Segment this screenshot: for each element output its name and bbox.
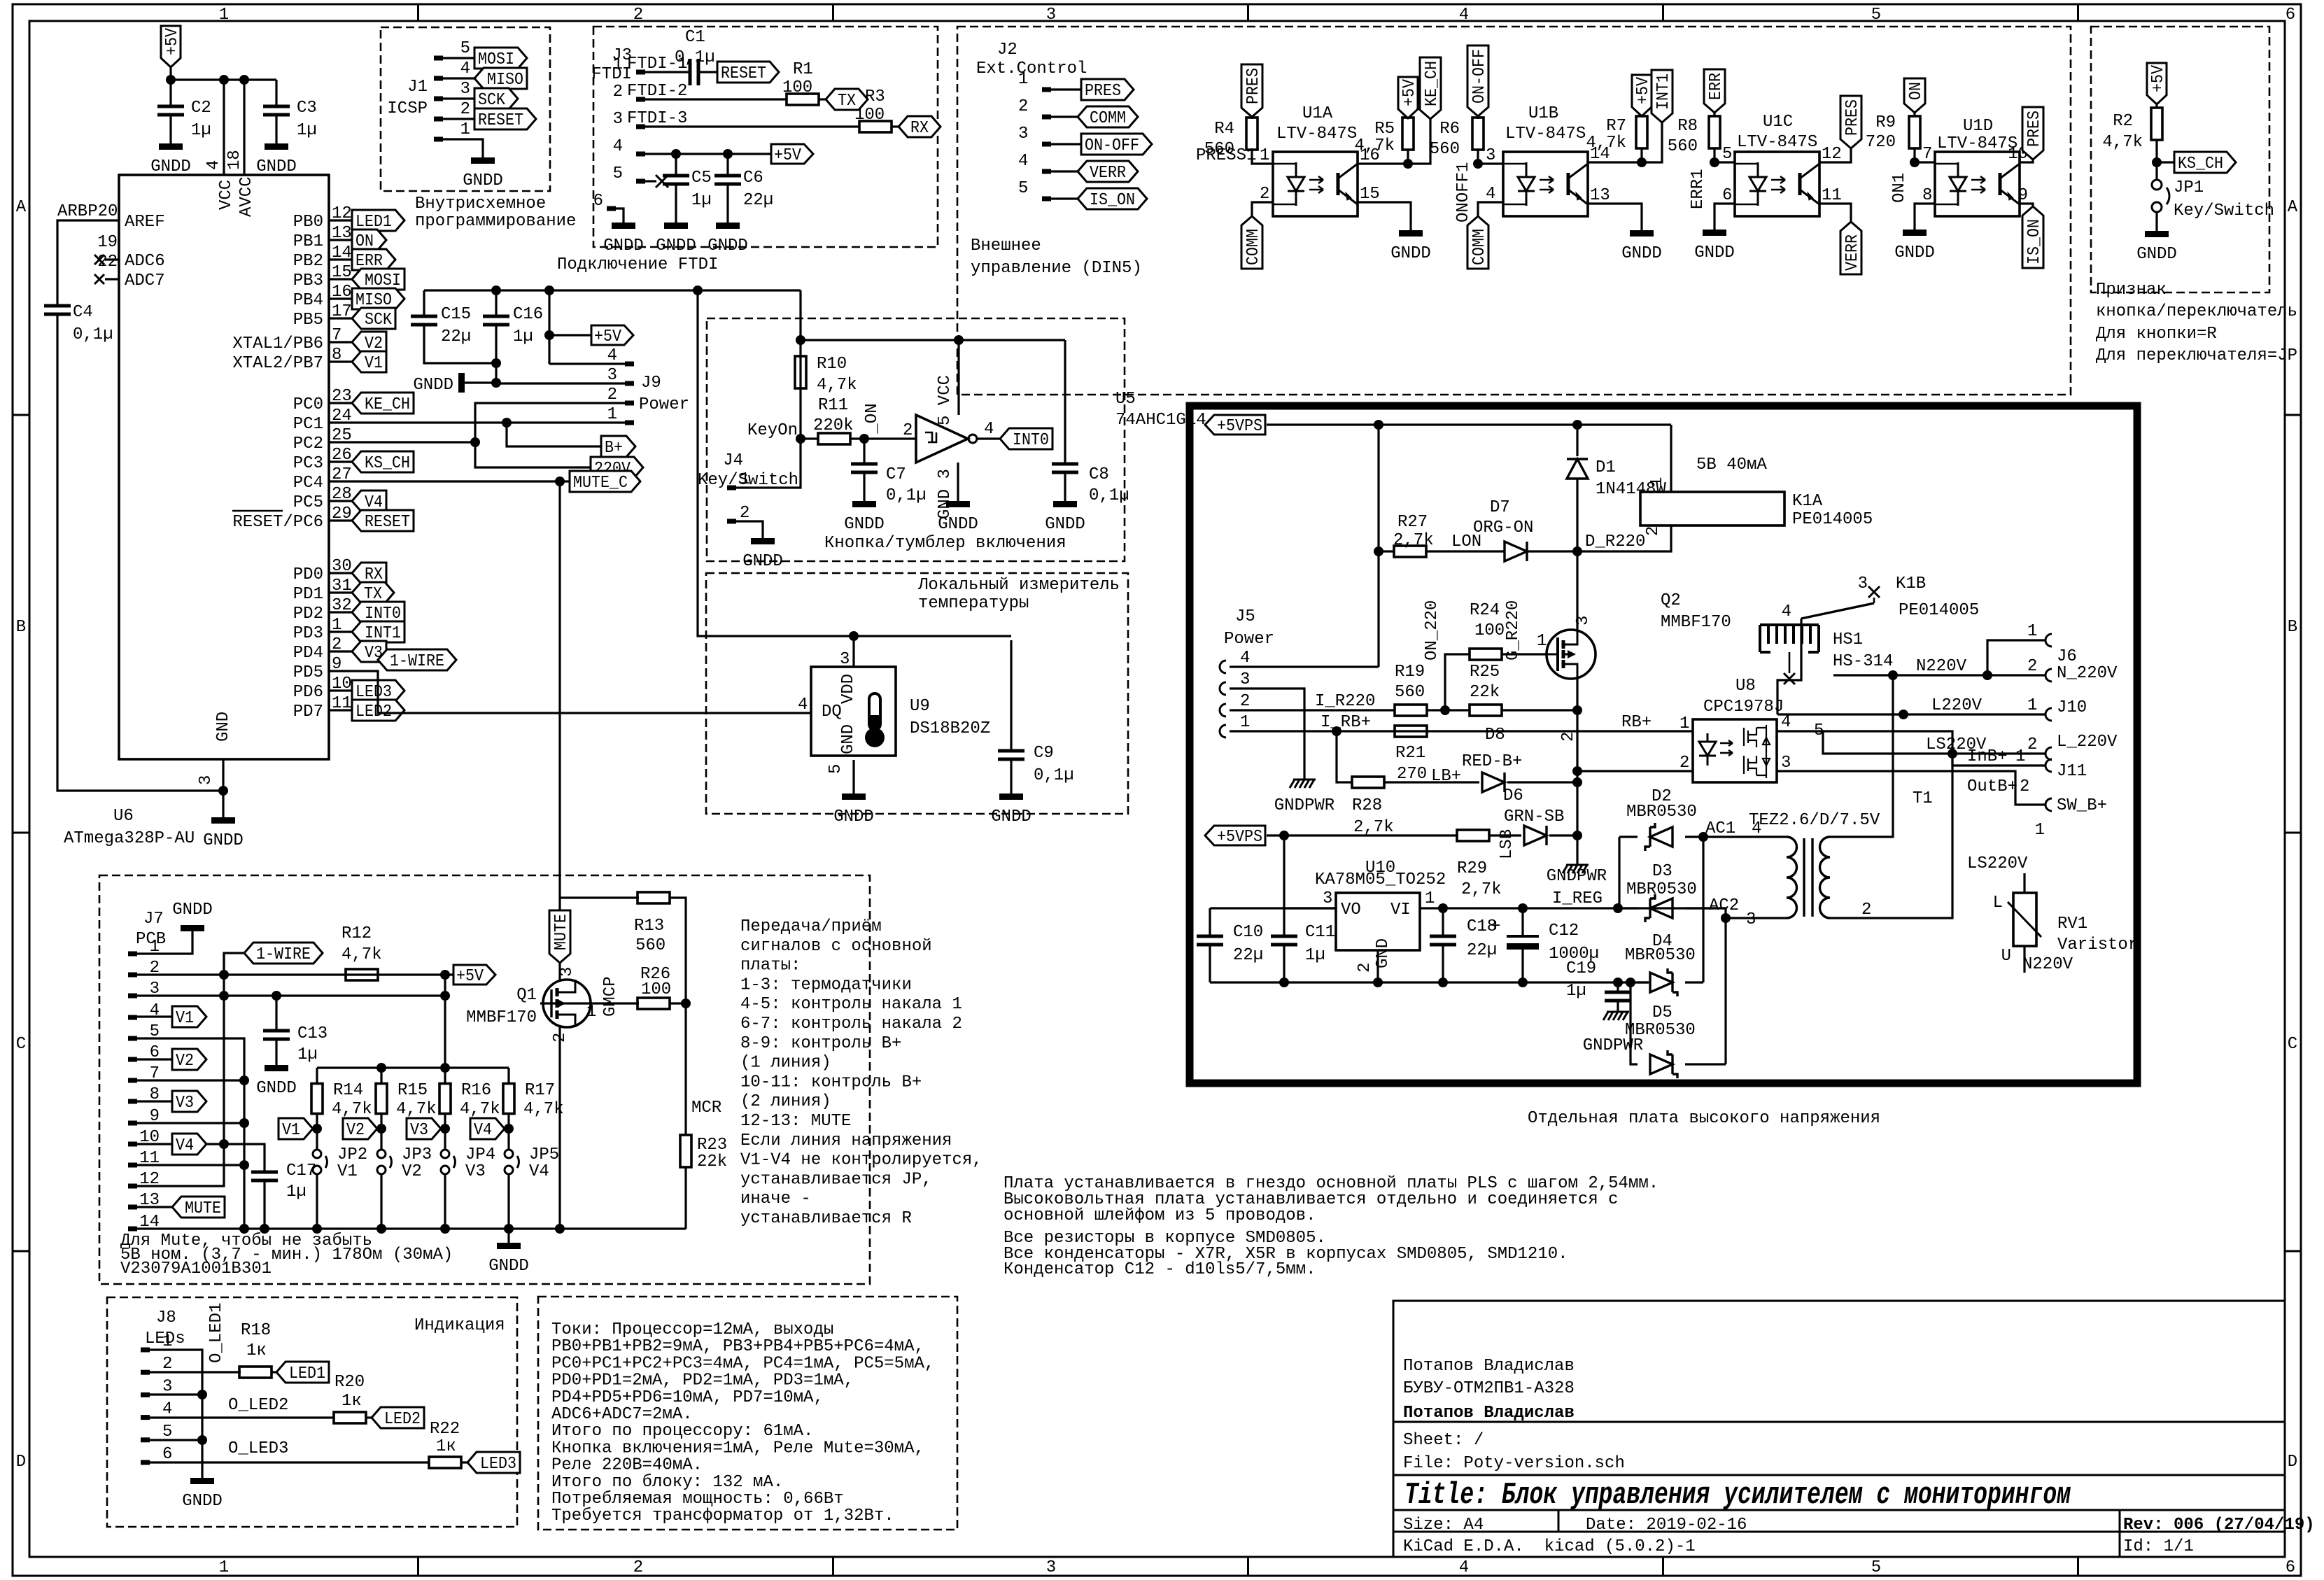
svg-text:C6: C6 (743, 169, 763, 188)
svg-text:DQ: DQ (822, 703, 842, 721)
svg-text:3: 3 (1046, 6, 1056, 24)
svg-text:ORG-ON: ORG-ON (1473, 519, 1533, 537)
ground GNDD under C3 (265, 143, 288, 150)
junction KeyOn (796, 434, 805, 444)
junction dots on VCC rail (166, 75, 176, 85)
ground GNDD under J8 (190, 1478, 214, 1484)
svg-text:C4: C4 (73, 303, 93, 322)
svg-text:100: 100 (641, 980, 671, 999)
svg-text:4,7k: 4,7k (341, 945, 382, 964)
svg-text:KE_CH: KE_CH (1423, 61, 1442, 106)
svg-text:C9: C9 (1034, 744, 1054, 763)
svg-text:U8: U8 (1735, 677, 1756, 696)
wire R11 to C7 junction, net T_ON (850, 437, 916, 439)
svg-text:GNDD: GNDD (1390, 244, 1431, 263)
svg-text:100: 100 (854, 106, 885, 125)
wire U8 pin2 (1577, 770, 1693, 772)
svg-text:GRN-SB: GRN-SB (1504, 807, 1564, 826)
resistor R6 (1477, 116, 1479, 119)
wire J9 pin4 (549, 362, 625, 365)
global label RX (FTDI) (899, 116, 941, 137)
svg-text:PD0: PD0 (293, 565, 323, 584)
svg-text:PRES: PRES (1085, 82, 1121, 101)
svg-text:GNDPWR: GNDPWR (1274, 796, 1334, 815)
svg-text:R24: R24 (1470, 601, 1500, 620)
wire J5 pin1 I_RB+ to U8 (1230, 730, 1693, 732)
svg-text:I_RB+: I_RB+ (1321, 713, 1371, 732)
svg-text:Токи: Процессор=12мА, выходы: Токи: Процессор=12мА, выходы (551, 1320, 833, 1339)
global label TX (FTDI) (826, 89, 868, 110)
svg-text:1: 1 (1679, 714, 1689, 733)
svg-text:U1C: U1C (1763, 113, 1793, 132)
svg-text:Признак: Признак (2096, 281, 2167, 299)
wire J7 pin14 ground rail (137, 1227, 686, 1229)
svg-text:R1: R1 (793, 60, 813, 79)
svg-text:PC5: PC5 (293, 493, 323, 512)
svg-text:V1: V1 (282, 1121, 300, 1140)
svg-text:кнопка/переключатель: кнопка/переключатель (2096, 302, 2297, 321)
svg-text:U: U (2001, 947, 2011, 966)
svg-text:Ext.Control: Ext.Control (976, 59, 1087, 78)
svg-text:V3: V3 (410, 1121, 428, 1140)
svg-text:GNDD: GNDD (182, 1492, 223, 1511)
wire J7 pin3 (137, 994, 445, 996)
svg-text:560: 560 (1395, 683, 1425, 702)
wire J7 pin10 V4 to C17 junction (137, 1143, 224, 1145)
svg-text:R10: R10 (817, 355, 847, 374)
svg-text:ICSP: ICSP (387, 99, 428, 118)
relay switch K1B (1868, 586, 1880, 598)
svg-text:Итого по процессору: 61мА.: Итого по процессору: 61мА. (551, 1422, 813, 1441)
svg-text:PE014005: PE014005 (1792, 510, 1873, 529)
resistor R21 (1395, 726, 1427, 737)
wire U8 pin4 to J11 pin1 InB+ (1777, 731, 2045, 766)
svg-text:2: 2 (1018, 97, 1028, 116)
ground GNDD above J7 pin1 (181, 925, 204, 931)
svg-text:V23079A1001B301: V23079A1001B301 (120, 1260, 272, 1278)
wire U1A pin2 to COMM (1252, 202, 1273, 216)
svg-text:L220V: L220V (1931, 696, 1983, 715)
svg-text:AREF: AREF (125, 213, 165, 232)
jumper JP1 Key/Switch (2155, 162, 2157, 181)
svg-text:3: 3 (1240, 670, 1250, 689)
global label INT0 (1000, 428, 1052, 449)
svg-text:8: 8 (332, 346, 341, 365)
svg-text:PC2: PC2 (293, 435, 323, 453)
svg-text:1-3: термодатчики: 1-3: термодатчики (740, 975, 912, 994)
sensor U9 DS18B20Z (852, 636, 854, 667)
svg-text:ADC6: ADC6 (125, 252, 165, 271)
wire J8 pin4 to R20 (150, 1416, 334, 1418)
svg-text:2,7k: 2,7k (1393, 531, 1434, 550)
MCU pin PD5 1-WIRE wire (329, 670, 352, 672)
svg-text:GNDD: GNDD (938, 515, 978, 534)
svg-text:11: 11 (1822, 186, 1842, 205)
power flag +5V above R2 (2147, 63, 2167, 104)
wire +5V down to pullup rail (444, 975, 446, 1068)
svg-text:Для кнопки=R: Для кнопки=R (2096, 325, 2217, 344)
svg-text:+5V: +5V (594, 327, 622, 346)
svg-text:Внутрисхемное: Внутрисхемное (415, 195, 546, 213)
svg-text:LB+: LB+ (1431, 767, 1461, 786)
svg-text:БУВУ-ОТМ2ПВ1-А328: БУВУ-ОТМ2ПВ1-А328 (1403, 1379, 1575, 1398)
svg-text:4,7k: 4,7k (523, 1100, 564, 1119)
wire D6 to GNDPWR chain (1549, 834, 1577, 836)
wire +5V into button box (736, 290, 801, 488)
wire branch to B+ label (507, 423, 601, 446)
jumper JP4 with V3 label (440, 1124, 450, 1134)
ground GNDD under C8 (1053, 501, 1077, 507)
resistor R1 (787, 94, 819, 105)
svg-text:29: 29 (332, 505, 352, 523)
svg-text:10: 10 (332, 675, 352, 693)
resistor R10 (795, 356, 806, 388)
svg-text:MUTE: MUTE (185, 1199, 221, 1218)
ground GNDD under J1 (471, 157, 495, 164)
wire R20 to LED2 (365, 1416, 372, 1418)
svg-text:A: A (16, 198, 27, 217)
svg-text:2: 2 (332, 635, 341, 654)
svg-text:ONOFF1: ONOFF1 (1454, 162, 1473, 223)
global label COMM below U1A (1241, 216, 1262, 269)
svg-text:R28: R28 (1352, 796, 1382, 815)
svg-text:PB3: PB3 (293, 271, 323, 290)
MCU pin ADC6 no-connect (105, 258, 119, 260)
capacitor C16 (495, 290, 497, 316)
wire Q1 source to ground rail (558, 1027, 561, 1229)
svg-text:10-11: контроль B+: 10-11: контроль B+ (740, 1073, 922, 1092)
svg-text:24: 24 (332, 407, 352, 425)
svg-text:2: 2 (613, 83, 623, 101)
MCU pin PC2 wire to 220V (329, 441, 352, 443)
global label MUTE at J7 (172, 1197, 225, 1218)
LED D6 GRN-SB (1524, 826, 1547, 845)
svg-text:2: 2 (903, 421, 913, 440)
svg-text:2: 2 (2020, 777, 2029, 796)
svg-text:3: 3 (1046, 1558, 1056, 1577)
svg-text:PB0: PB0 (293, 213, 323, 232)
wire J3 pin5 no-connect (645, 180, 656, 182)
polarized capacitor C12 1000µ (1521, 908, 1523, 936)
svg-text:U1A: U1A (1302, 104, 1333, 123)
svg-text:2: 2 (2027, 657, 2037, 676)
svg-text:C10: C10 (1233, 923, 1263, 942)
wire U1D pin10 to PRES (2020, 160, 2033, 162)
svg-text:1: 1 (607, 405, 617, 424)
wire MUTE_C down to MUTE flag at Q1 (558, 481, 561, 912)
wire PC2 to 220V net (352, 441, 475, 443)
wire J1 pin4 MISO (443, 77, 474, 79)
svg-text:GNDD: GNDD (256, 1079, 297, 1098)
MCU pin PD4 V3 (329, 650, 352, 652)
resistor R12 (346, 969, 378, 980)
svg-text:PC4: PC4 (293, 474, 323, 493)
svg-text:5: 5 (162, 1423, 172, 1441)
svg-text:COMM: COMM (1090, 109, 1126, 128)
wire +5VPS rail (1267, 423, 1671, 425)
svg-text:22µ: 22µ (743, 191, 773, 210)
svg-text:4: 4 (984, 420, 994, 439)
svg-text:0,1µ: 0,1µ (1034, 766, 1074, 785)
svg-text:VI: VI (1390, 901, 1411, 919)
capacitor C1 (690, 59, 698, 85)
svg-text:4: 4 (1782, 602, 1791, 621)
thick box high voltage board (1190, 406, 2137, 1083)
wire D2 cathode down to I_REG (1618, 837, 1620, 908)
svg-text:U1D: U1D (1963, 117, 1993, 136)
svg-text:1µ: 1µ (691, 191, 712, 210)
svg-text:GNDD: GNDD (603, 237, 644, 255)
svg-text:MISO: MISO (487, 71, 523, 90)
svg-text:INT1: INT1 (1654, 73, 1673, 110)
svg-text:R29: R29 (1457, 859, 1487, 878)
svg-text:1µ: 1µ (513, 327, 533, 346)
wire R22 to LED3 (460, 1461, 467, 1463)
ground GNDD under C9 (999, 793, 1023, 800)
svg-text:3: 3 (1486, 146, 1495, 165)
svg-text:D_R220: D_R220 (1585, 532, 1645, 551)
svg-text:ON-OFF: ON-OFF (1085, 136, 1139, 155)
wire +5V to VCC rail (171, 67, 276, 80)
svg-text:1: 1 (1018, 70, 1028, 89)
transistor Q1 MMBF170 (543, 980, 591, 1027)
capacitor C6 (726, 154, 728, 176)
svg-text:FTDI-2: FTDI-2 (627, 82, 687, 101)
capacitor C9 (1010, 640, 1012, 751)
svg-text:B: B (2288, 618, 2297, 637)
svg-text:4-5: контроль накала 1: 4-5: контроль накала 1 (740, 995, 962, 1014)
global label 220V (591, 457, 643, 478)
svg-text:J5: J5 (1235, 607, 1255, 626)
svg-text:1: 1 (1648, 477, 1667, 487)
svg-text:Varistor: Varistor (2057, 936, 2138, 954)
transistor Q2 MMBF170 (1547, 630, 1596, 679)
svg-text:0,1µ: 0,1µ (1089, 486, 1129, 505)
svg-text:12: 12 (1822, 145, 1842, 164)
svg-text:AC2: AC2 (1709, 896, 1739, 915)
wire L220V run to J10 (1777, 713, 2045, 715)
ground GNDD under U5 (946, 501, 970, 507)
svg-text:2: 2 (740, 504, 749, 523)
pullup rail R14-R17 (317, 1066, 509, 1068)
svg-text:1: 1 (162, 1332, 172, 1351)
svg-text:PRESS1: PRESS1 (1196, 146, 1256, 165)
svg-text:5: 5 (826, 764, 845, 774)
svg-text:1: 1 (2027, 622, 2037, 641)
resistor R26 at Q1 gate (638, 998, 670, 1009)
svg-text:4: 4 (613, 137, 623, 156)
power flag +5VPS top (1205, 415, 1265, 435)
ground GNDD under J7 rail (507, 1229, 509, 1243)
capacitor C7 (863, 439, 865, 464)
svg-text:KS_CH: KS_CH (2178, 155, 2223, 174)
svg-text:4: 4 (204, 160, 223, 170)
MCU pin PB5 SCK (329, 317, 352, 319)
svg-text:IS_ON: IS_ON (1090, 191, 1135, 210)
svg-text:R6: R6 (1439, 120, 1460, 139)
svg-text:G_R220: G_R220 (1504, 600, 1523, 661)
svg-text:GNDD: GNDD (1894, 244, 1935, 262)
svg-text:GNDD: GNDD (488, 1257, 529, 1276)
svg-text:INT0: INT0 (1013, 431, 1049, 450)
svg-text:J11: J11 (2057, 762, 2087, 781)
svg-text:4: 4 (1240, 649, 1250, 668)
wire J5 pin4 to +5VPS (1230, 665, 1379, 668)
global label IS_ON below U1D (2022, 206, 2043, 268)
svg-text:V3: V3 (465, 1162, 486, 1181)
svg-text:AVCC: AVCC (237, 176, 256, 217)
power flag +5VPS lower (1205, 826, 1265, 845)
svg-text:J7: J7 (143, 910, 164, 929)
svg-text:Отдельная плата высокого напря: Отдельная плата высокого напряжения (1528, 1109, 1880, 1128)
svg-text:1: 1 (219, 6, 229, 24)
svg-text:D8: D8 (1485, 726, 1505, 745)
svg-text:D7: D7 (1490, 498, 1510, 517)
svg-text:Size: A4: Size: A4 (1403, 1516, 1484, 1535)
wire U1D pin8 to ground (1915, 204, 1935, 230)
svg-text:Потапов Владислав: Потапов Владислав (1403, 1357, 1575, 1376)
svg-text:Key/Switch: Key/Switch (2174, 202, 2274, 220)
svg-text:B+: B+ (605, 439, 623, 458)
svg-text:R2: R2 (2113, 112, 2133, 131)
svg-text:температуры: температуры (918, 594, 1029, 613)
svg-text:27: 27 (332, 465, 352, 484)
resistor R18 (239, 1367, 272, 1378)
svg-text:GNDD: GNDD (463, 171, 503, 190)
svg-text:R27: R27 (1397, 513, 1428, 532)
resistor R25 (1470, 705, 1502, 716)
svg-text:C19: C19 (1566, 959, 1596, 978)
svg-text:MCR: MCR (691, 1099, 721, 1117)
connector J6 (2045, 634, 2052, 647)
svg-text:GND: GND (214, 712, 233, 742)
wire J6 pin1 (1987, 640, 2045, 675)
dashed box FTDI (593, 27, 938, 247)
capacitor C19 (1617, 982, 1619, 992)
svg-text:1к: 1к (436, 1437, 456, 1456)
wire T1 pin2 to LS220V (1830, 754, 1952, 918)
svg-text:7: 7 (332, 326, 341, 345)
svg-text:GNDD: GNDD (2136, 245, 2177, 264)
svg-text:C8: C8 (1089, 465, 1109, 484)
dashed box Признак кнопка/переключатель (2091, 27, 2269, 292)
ground GNDD under C6 (716, 223, 740, 229)
svg-text:KA78M05_TO252: KA78M05_TO252 (1315, 870, 1446, 889)
svg-text:GND: GND (1374, 938, 1393, 968)
svg-text:15: 15 (1360, 185, 1380, 204)
svg-text:R23: R23 (697, 1136, 727, 1155)
svg-text:Потребляемая мощность: 0,66Вт: Потребляемая мощность: 0,66Вт (551, 1490, 844, 1509)
svg-text:2: 2 (2027, 735, 2037, 754)
svg-text:PB5: PB5 (293, 311, 323, 330)
capacitor C4 (44, 306, 71, 314)
svg-text:Передача/приём: Передача/приём (740, 917, 882, 936)
svg-text:3: 3 (1574, 616, 1593, 626)
svg-text:C13: C13 (297, 1024, 328, 1043)
ground GNDD under J3 pin6 (612, 223, 635, 229)
resistor R4 (1251, 117, 1253, 119)
svg-text:1: 1 (1240, 713, 1250, 732)
wire +5VPS down to U10 (1283, 835, 1285, 908)
svg-text:A: A (2288, 198, 2298, 217)
svg-text:C2: C2 (191, 99, 211, 118)
svg-text:14: 14 (332, 244, 352, 262)
svg-text:PC0+PC1+PC2+PC3=4мА, PC4=1мА,: PC0+PC1+PC2+PC3=4мА, PC4=1мА, PC5=5мА, (551, 1354, 934, 1373)
global label MUTE_C (570, 471, 640, 492)
svg-text:N220V: N220V (2022, 955, 2073, 974)
svg-text:HS1: HS1 (1833, 630, 1863, 649)
wire T1 pin1 to N220V (1830, 675, 1893, 837)
svg-text:T1: T1 (1913, 789, 1933, 808)
svg-text:1µ: 1µ (297, 1045, 318, 1064)
svg-text:Для переключателя=JP: Для переключателя=JP (2096, 346, 2297, 365)
global label RESET (FTDI) (717, 62, 779, 83)
svg-text:C7: C7 (886, 465, 906, 484)
svg-text:C: C (16, 1035, 26, 1054)
svg-text:2: 2 (1240, 692, 1250, 711)
svg-text:Id: 1/1: Id: 1/1 (2123, 1537, 2194, 1556)
resistor R19 (1395, 705, 1427, 716)
wire C10 C11 top rail (1210, 907, 1336, 909)
svg-text:9: 9 (2018, 186, 2028, 205)
svg-text:PE014005: PE014005 (1899, 601, 1979, 620)
wire D8 to Q2 source vertical (1507, 781, 1577, 783)
svg-text:0,1µ: 0,1µ (675, 48, 715, 67)
wire J7 pin2 1-WIRE/R12/+5V (137, 973, 453, 975)
op MCU U6 body (119, 175, 329, 759)
svg-text:RESET: RESET (365, 513, 410, 532)
svg-text:LED3: LED3 (480, 1455, 516, 1474)
wire PC1 to J9 pin1 (352, 421, 626, 423)
svg-text:основной шлейфом из 5 проводов: основной шлейфом из 5 проводов. (1003, 1206, 1316, 1225)
svg-text:ON-OFF: ON-OFF (1470, 49, 1489, 104)
svg-text:13: 13 (332, 224, 352, 243)
svg-text:J2: J2 (997, 41, 1017, 59)
wire R2 to KS_CH (2157, 140, 2174, 162)
capacitor C2 (169, 80, 171, 106)
svg-text:+5VPS: +5VPS (1217, 828, 1262, 847)
svg-text:MMBF170: MMBF170 (1661, 613, 1731, 632)
MCU pin PB3 MOSI (329, 278, 352, 280)
svg-text:+5V: +5V (1634, 76, 1653, 104)
wire VCC rail in button box (801, 339, 1065, 341)
wire R13 to MCR vertical (669, 898, 686, 1135)
global label KS_CH (2174, 152, 2236, 173)
wire U1B pin4 to COMM (1478, 202, 1503, 216)
MCU pin PD2 INT0 (329, 611, 352, 613)
capacitor C13 (275, 996, 277, 1031)
svg-text:4: 4 (798, 696, 808, 714)
svg-text:K1A: K1A (1792, 492, 1823, 511)
svg-text:6: 6 (162, 1445, 172, 1464)
svg-text:J1: J1 (407, 78, 428, 97)
ground GNDD under U1A (1399, 230, 1423, 237)
svg-text:ARBP20: ARBP20 (57, 202, 118, 221)
svg-text:+: + (1491, 917, 1500, 936)
diode D1 1N4148W (1576, 425, 1578, 456)
svg-text:V1: V1 (337, 1162, 358, 1181)
global label ERR at R8 (1704, 69, 1725, 113)
svg-text:C11: C11 (1305, 923, 1335, 942)
wire U1C pin12 to PRES (1819, 148, 1851, 162)
svg-text:I_R220: I_R220 (1315, 692, 1375, 711)
wire JP1 to ground (2155, 212, 2157, 231)
svg-text:GMCP: GMCP (601, 976, 620, 1017)
wire Q1 gate to R26 (540, 1002, 591, 1004)
svg-text:R22: R22 (430, 1420, 460, 1439)
svg-text:PRES: PRES (1843, 99, 1862, 136)
svg-text:CPC1978J: CPC1978J (1703, 698, 1784, 717)
